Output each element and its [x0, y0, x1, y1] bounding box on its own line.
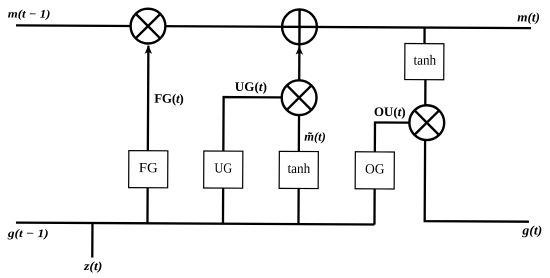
box tanh output [405, 44, 444, 80]
arrowhead into forget multiplier [145, 45, 152, 54]
wire z input stub [91, 223, 93, 257]
svg-text:m(t): m(t) [517, 9, 540, 24]
box FG [129, 151, 168, 188]
arrowhead into adder [296, 46, 303, 55]
wire g bottom rail [16, 223, 374, 225]
box OG [355, 152, 394, 189]
adder node [282, 9, 317, 44]
wire UG box to g rail [222, 188, 224, 224]
wire OG box up and over to output multiplier [375, 122, 427, 152]
wire FG box to forget multiplier [147, 46, 150, 151]
svg-text:g(t): g(t) [521, 222, 542, 237]
svg-text:FG(t): FG(t) [154, 91, 183, 106]
wire m top rail [16, 25, 531, 28]
svg-text:m(t − 1): m(t − 1) [8, 8, 51, 20]
wire tanh box to g rail [297, 188, 299, 224]
wire UG box up and over to update multiplier [223, 97, 299, 151]
wire FG box to g rail [146, 188, 148, 224]
svg-text:z(t): z(t) [83, 259, 103, 273]
svg-text:tanh: tanh [413, 54, 436, 69]
svg-text:UG(t): UG(t) [235, 79, 267, 94]
multiplier node output gate [409, 105, 444, 140]
svg-text:OU(t): OU(t) [374, 104, 406, 119]
wire mid column tanh box through update multiplier to adder [298, 10, 301, 152]
svg-text:g(t − 1): g(t − 1) [7, 228, 49, 240]
svg-text:UG: UG [214, 162, 232, 177]
svg-text:m̃(t): m̃(t) [304, 130, 326, 144]
box UG [204, 151, 243, 188]
wire output tanh through output multiplier down and right to g(t) [425, 79, 530, 222]
svg-text:tanh: tanh [287, 162, 310, 177]
svg-text:FG: FG [139, 161, 158, 176]
multiplier node forget gate [131, 9, 166, 44]
wire m rail to output tanh box [423, 28, 425, 45]
multiplier node update gate [282, 80, 317, 115]
wire OG box to g rail [373, 189, 375, 225]
box tanh candidate [279, 151, 318, 188]
svg-text:OG: OG [365, 162, 385, 177]
